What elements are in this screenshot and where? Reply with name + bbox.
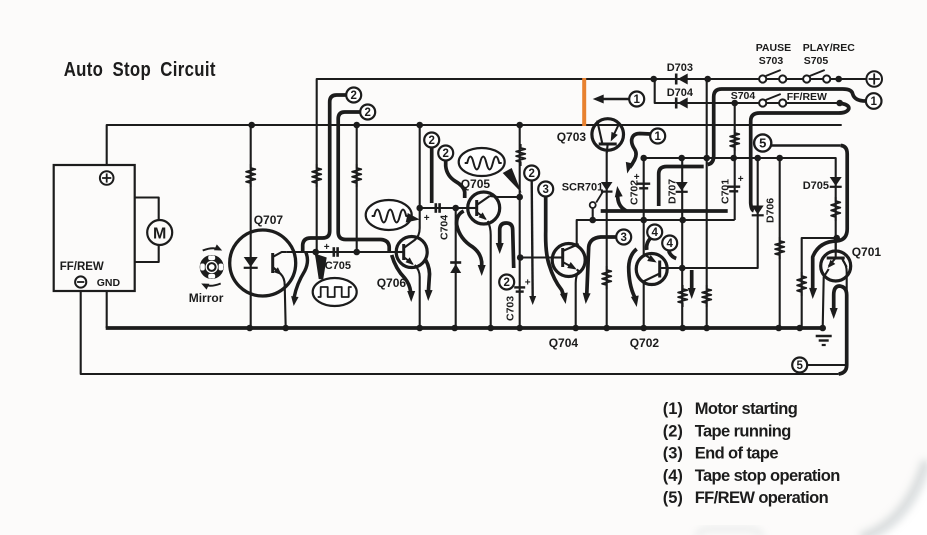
svg-text:FF/REW operation: FF/REW operation — [695, 489, 829, 507]
svg-text:D705: D705 — [803, 180, 829, 192]
svg-text:+: + — [525, 278, 531, 289]
svg-text:C704: C704 — [439, 215, 451, 240]
svg-text:PLAY/REC: PLAY/REC — [803, 42, 856, 54]
svg-text:Q705: Q705 — [461, 177, 491, 191]
svg-text:2: 2 — [442, 148, 448, 160]
svg-text:Q702: Q702 — [630, 336, 660, 350]
svg-text:1: 1 — [633, 94, 640, 106]
svg-text:Q703: Q703 — [557, 130, 587, 144]
svg-text:PAUSE: PAUSE — [756, 42, 791, 54]
svg-text:D706: D706 — [765, 198, 777, 223]
svg-text:Motor starting: Motor starting — [695, 400, 798, 418]
svg-text:GND: GND — [97, 277, 121, 289]
svg-text:C702: C702 — [629, 180, 641, 205]
svg-text:(2): (2) — [663, 422, 683, 440]
svg-text:+: + — [424, 213, 430, 224]
svg-text:(4): (4) — [663, 467, 683, 485]
svg-text:(5): (5) — [663, 489, 683, 507]
svg-text:2: 2 — [364, 107, 370, 119]
svg-text:Q706: Q706 — [377, 276, 407, 290]
svg-text:Tape stop operation: Tape stop operation — [695, 467, 841, 485]
svg-text:2: 2 — [528, 168, 534, 180]
svg-text:End of tape: End of tape — [695, 445, 779, 463]
svg-text:D707: D707 — [667, 179, 679, 204]
svg-text:C703: C703 — [505, 296, 517, 321]
svg-text:Auto Stop Circuit: Auto Stop Circuit — [64, 58, 216, 81]
svg-text:1: 1 — [870, 96, 877, 108]
svg-text:D703: D703 — [667, 62, 693, 74]
svg-text:Mirror: Mirror — [189, 291, 224, 305]
svg-text:3: 3 — [620, 232, 626, 244]
svg-text:D704: D704 — [667, 87, 694, 99]
svg-text:2: 2 — [428, 135, 434, 147]
svg-text:4: 4 — [651, 227, 658, 239]
svg-text:Q707: Q707 — [254, 213, 284, 227]
svg-text:S704: S704 — [731, 90, 756, 102]
svg-text:SCR701: SCR701 — [562, 182, 604, 194]
svg-text:1: 1 — [654, 131, 661, 143]
svg-text:Q701: Q701 — [852, 245, 882, 259]
svg-text:3: 3 — [542, 184, 548, 196]
svg-text:FF/REW: FF/REW — [60, 261, 104, 273]
svg-text:+: + — [324, 242, 330, 253]
svg-text:(3): (3) — [663, 445, 683, 463]
svg-text:M: M — [153, 226, 166, 243]
svg-text:(1): (1) — [663, 400, 683, 418]
svg-text:4: 4 — [666, 238, 673, 250]
svg-text:5: 5 — [796, 360, 803, 372]
svg-text:+: + — [738, 174, 744, 185]
svg-text:FF/REW: FF/REW — [787, 91, 827, 103]
svg-text:2: 2 — [350, 90, 356, 102]
svg-text:2: 2 — [503, 277, 509, 289]
svg-text:C705: C705 — [325, 260, 351, 272]
svg-text:C701: C701 — [720, 179, 732, 204]
svg-text:5: 5 — [759, 136, 766, 151]
svg-text:S703: S703 — [759, 55, 784, 67]
svg-text:S705: S705 — [804, 55, 829, 67]
svg-text:Tape running: Tape running — [695, 422, 791, 440]
svg-text:Q704: Q704 — [549, 336, 579, 350]
